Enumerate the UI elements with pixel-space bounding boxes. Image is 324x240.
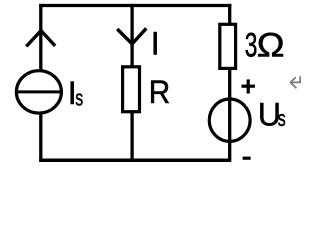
- wire left branch lower: [39, 113, 42, 162]
- wire top rail: [39, 4, 231, 7]
- svg-text:R: R: [149, 74, 170, 110]
- svg-text:s: s: [75, 87, 83, 111]
- svg-text:Ω: Ω: [257, 26, 285, 64]
- minus sign: [243, 157, 251, 160]
- resistor 3ohm (rectangle): [220, 24, 236, 68]
- label Is: [68, 75, 77, 111]
- wire left branch upper: [39, 4, 42, 71]
- current direction arrow (down) on middle wire: [117, 28, 146, 44]
- current source Is horizontal bar: [17, 90, 62, 93]
- svg-text:s: s: [278, 108, 286, 132]
- svg-text:I: I: [151, 26, 160, 62]
- wire right branch lower: [228, 67, 231, 162]
- wire middle branch lower: [130, 112, 133, 162]
- resistor R (rectangle): [123, 67, 140, 112]
- label I: [151, 26, 160, 62]
- plus sign: [242, 85, 255, 88]
- svg-text:3: 3: [245, 27, 258, 65]
- label Us: [258, 96, 281, 132]
- voltage source Us (circle): [209, 99, 250, 141]
- wire right branch upper: [228, 4, 231, 25]
- line-break mark (gray return arrow): [290, 76, 300, 88]
- label R: [149, 74, 170, 110]
- wire bottom rail: [39, 158, 231, 162]
- label 3ohm: [245, 27, 258, 65]
- current source Is (circle): [16, 71, 61, 113]
- current direction arrow (up) on left wire: [26, 31, 55, 47]
- wire middle branch upper: [130, 4, 133, 67]
